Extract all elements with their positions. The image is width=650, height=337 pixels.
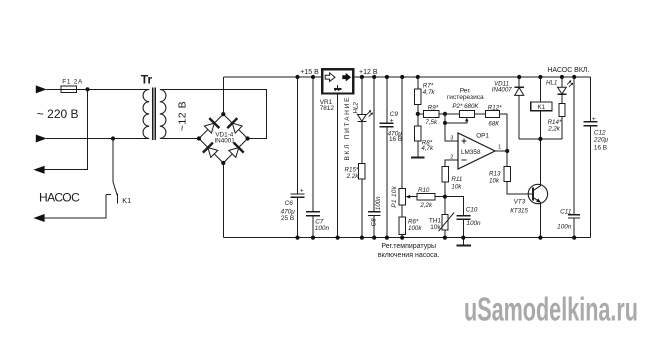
svg-text:НАСОС ВКЛ.: НАСОС ВКЛ. [547, 67, 589, 74]
wire R8 to ground [417, 141, 419, 157]
switch K1 lower terminal tick [106, 193, 111, 195]
wire TH1 bottom [444, 230, 446, 238]
resistor R15 [359, 163, 366, 178]
svg-text:100n: 100n [315, 225, 330, 232]
wire HL2 to R15 [361, 122, 363, 164]
wire R7 to divider node [417, 105, 419, 126]
wire R13 to base [507, 181, 533, 194]
capacitor C6 branch wire top [297, 77, 299, 194]
wire node to C10 [445, 197, 463, 216]
input terminal L (220V top) [36, 85, 47, 93]
node fused line junction [85, 87, 89, 91]
resistor R8 [415, 126, 422, 141]
svg-text:100n: 100n [557, 223, 572, 230]
VR1 ground mark [337, 85, 339, 89]
wire C9 bottom [386, 127, 388, 238]
wire bridge plus up [222, 77, 224, 114]
svg-text:~ 220 В: ~ 220 В [37, 107, 79, 121]
resistor R9 [423, 111, 439, 118]
wire bridge minus down [222, 163, 224, 238]
svg-text:КТ315: КТ315 [510, 207, 528, 214]
wire +12V rail [353, 76, 590, 78]
resistor R6 [399, 217, 405, 235]
node rail C6 [295, 236, 299, 240]
node divider left [416, 112, 420, 116]
node HL2 tap [360, 75, 364, 79]
wire C12 bottom [589, 126, 591, 238]
svg-text:OP1: OP1 [476, 133, 489, 140]
wire relay bottom bus [519, 138, 562, 140]
svg-text:K1: K1 [122, 196, 131, 205]
svg-text:гистерезиса: гистерезиса [447, 94, 484, 101]
svg-text:IN4001: IN4001 [214, 138, 235, 145]
wire output [495, 150, 507, 152]
wire output to R13 [506, 151, 508, 166]
regulator U VR1 7812 box [322, 69, 353, 93]
wire P2 to R12 [475, 113, 486, 115]
wire R12 to output [500, 114, 508, 151]
svg-text:F1 2A: F1 2A [62, 79, 83, 86]
node comparator input [443, 195, 447, 199]
wire C7 bottom [312, 216, 314, 238]
wire 220V top line [46, 88, 149, 90]
relay K1 coil box [531, 102, 552, 111]
node rail C7 [311, 236, 315, 240]
wire node to TH1 [444, 197, 446, 215]
svg-text:ВКЛ ПИТАНИЕ: ВКЛ ПИТАНИЕ [344, 97, 351, 161]
svg-text:C11: C11 [560, 208, 572, 215]
wire VR1 ground down [337, 94, 339, 238]
transformer Tr core [152, 87, 154, 140]
fuse F1 [61, 86, 77, 92]
node pin3 top [443, 112, 447, 116]
wire secondary top to bridge AC right [160, 90, 267, 139]
svg-text:7812: 7812 [320, 105, 335, 112]
capacitor C7 plates [306, 211, 320, 213]
ground below R8 [411, 156, 425, 158]
svg-text:C12: C12 [594, 130, 606, 137]
potentiometer P2 wiper [465, 118, 468, 122]
ground below C10 [462, 238, 464, 245]
svg-text:4,7k: 4,7k [423, 89, 436, 96]
diode VD11 cathode bar [514, 86, 524, 88]
LED HL1 triangle [558, 87, 567, 94]
node switch branch junction [111, 136, 115, 140]
node rail C10 [461, 236, 465, 240]
diode VD2 (upper-right) [232, 123, 242, 133]
VR1 output filled arrow [342, 73, 351, 82]
svg-text:Tr: Tr [141, 73, 153, 87]
svg-text:VT3: VT3 [514, 199, 526, 206]
LED HL2 light arrows [367, 111, 370, 114]
wire P1 to R6 [401, 205, 403, 217]
capacitor C11 plates [568, 214, 580, 216]
wire VD11 bottom [518, 95, 520, 138]
node C7 tap [311, 75, 315, 79]
node rail VR1 gnd [336, 236, 340, 240]
wire HL1 top [561, 77, 563, 87]
node bridge top [221, 112, 225, 116]
wire C11 bottom [573, 218, 575, 238]
wire pin3 vertical [445, 114, 458, 141]
output terminal pump side B [33, 214, 44, 222]
diode VD11 triangle [515, 88, 524, 96]
switch K1 contact [113, 182, 117, 195]
node VD11 tap [517, 75, 521, 79]
node C6 tap [295, 75, 299, 79]
bridge VD1-4 diamond [199, 114, 248, 163]
node C11 tap [572, 75, 576, 79]
svg-text:K1: K1 [538, 104, 546, 111]
svg-text:+12 В: +12 В [359, 69, 378, 76]
svg-text:НАСОС: НАСОС [39, 191, 80, 205]
wire switch feed down [112, 139, 114, 183]
resistor R7 [415, 89, 422, 105]
wire collector up [539, 139, 541, 186]
svg-text:LM358: LM358 [461, 149, 481, 156]
svg-text:+: + [300, 188, 304, 195]
wire pin3 node to P2 [445, 113, 460, 115]
wire C8 bottom [373, 216, 375, 238]
thermistor TH1 diagonal [439, 212, 455, 231]
wire P1 top [401, 77, 403, 189]
node bridge bottom [221, 161, 225, 165]
potentiometer P1 wiper arrow [409, 196, 417, 198]
node output [505, 149, 509, 153]
node C8 tap [372, 75, 376, 79]
svg-text:uSamodelkina.ru: uSamodelkina.ru [464, 291, 638, 328]
wire HL1 to R14 [561, 94, 563, 103]
wire divider to R9 [418, 113, 424, 115]
wire C10 bottom [462, 219, 464, 237]
svg-text:4,7k: 4,7k [421, 145, 434, 152]
svg-text:10k: 10k [430, 224, 441, 231]
capacitor C12 plates [583, 121, 597, 123]
output terminal pump side A [33, 166, 44, 174]
svg-text:2,2k: 2,2k [419, 202, 433, 209]
svg-text:68К: 68К [488, 120, 499, 127]
svg-text:R13: R13 [489, 170, 501, 177]
svg-text:C9: C9 [390, 111, 399, 118]
wire K1 top [539, 77, 541, 102]
resistor R14 [559, 103, 565, 116]
wire ground rail [223, 237, 590, 239]
svg-text:HL2: HL2 [352, 102, 359, 114]
svg-text:+: + [390, 117, 394, 124]
wire +15V rail [223, 76, 322, 78]
node P1 tap [400, 75, 404, 79]
VR1 input hollow arrow [325, 73, 335, 82]
wire switch to pump terminal [44, 194, 106, 218]
svg-text:+: + [592, 116, 596, 123]
wire emitter down [539, 202, 541, 237]
svg-text:IN4007: IN4007 [492, 86, 513, 93]
node bridge left [197, 136, 201, 140]
op-amp minus input mark [461, 159, 466, 161]
wire VD11 top [518, 77, 520, 87]
node rail VT3 emitter [538, 236, 542, 240]
wire HL2 anode [361, 77, 363, 115]
svg-text:2,2k: 2,2k [547, 125, 561, 132]
input terminal N (220V bottom) [36, 135, 47, 143]
node rail TH1 [443, 236, 447, 240]
node rail C8 [372, 236, 376, 240]
node rail R15 [360, 236, 364, 240]
svg-text:+15 В: +15 В [300, 69, 319, 76]
LED HL1 cathode bar [557, 93, 566, 95]
node C9 tap [385, 75, 389, 79]
diode VD3 (lower-left) [208, 148, 218, 158]
node rail C11 [572, 236, 576, 240]
wire R9 to pin3 node [439, 113, 445, 115]
svg-text:2.2k: 2.2k [346, 173, 360, 180]
wire R10 to node [435, 196, 445, 198]
capacitor C9 branch wire [386, 77, 388, 123]
switch K1 fixed contact bar [117, 194, 119, 204]
wire secondary bottom to bridge AC left [160, 137, 199, 139]
wire R11 to node [444, 182, 446, 197]
diode VD4 (lower-right) [229, 148, 239, 158]
op-amp OP1 triangle [458, 133, 495, 169]
svg-text:25 В: 25 В [281, 215, 294, 222]
svg-text:2: 2 [450, 155, 453, 161]
svg-text:R10: R10 [418, 187, 430, 194]
transformer Tr primary winding [143, 89, 149, 138]
node rail R6 [400, 236, 404, 240]
svg-text:1: 1 [498, 144, 501, 150]
transformer Tr secondary winding [160, 90, 166, 139]
svg-text:R12*: R12* [488, 104, 502, 111]
svg-text:7,5k: 7,5k [425, 119, 438, 126]
capacitor C8 plates [368, 211, 380, 213]
svg-text:100n: 100n [466, 220, 481, 227]
node rail C9 [385, 236, 389, 240]
capacitor C10 plates [456, 215, 470, 217]
wire R15 bottom [361, 179, 363, 238]
wire R6 bottom [401, 235, 403, 238]
node R7 tap [416, 75, 420, 79]
thermistor TH1 body [442, 215, 448, 231]
potentiometer P1 body [399, 189, 405, 205]
node wiper to pin3 line [443, 121, 447, 125]
wire R14 bottom [561, 116, 563, 139]
potentiometer P2 body [460, 111, 475, 118]
LED HL1 light arrows [567, 82, 570, 85]
LED HL2 triangle [358, 115, 367, 122]
node K1 tap [538, 75, 542, 79]
svg-text:HL1: HL1 [546, 80, 557, 87]
capacitor C6 plates [291, 193, 305, 195]
resistor R13 [504, 166, 511, 181]
wire fused branch down [44, 89, 87, 169]
node relay bottom [538, 137, 542, 141]
wire R7 top [417, 77, 419, 89]
svg-text:~12 В: ~12 В [177, 101, 189, 131]
op-amp plus input mark [461, 140, 466, 142]
svg-text:P1 10k: P1 10k [391, 185, 398, 207]
diode VD1 (upper-left) [204, 123, 214, 133]
capacitor C9 plates [379, 122, 393, 124]
svg-text:C8: C8 [371, 218, 378, 226]
transistor VT3 [528, 184, 547, 203]
svg-text:100k: 100k [408, 225, 422, 232]
svg-text:включения насоса.: включения насоса. [378, 252, 440, 259]
svg-text:10k: 10k [451, 183, 462, 190]
svg-text:10k: 10k [489, 178, 500, 185]
svg-text:C10: C10 [466, 206, 478, 213]
svg-text:16 В: 16 В [389, 136, 402, 143]
resistor R11 [442, 167, 449, 183]
svg-text:Рег.темпиратуры: Рег.темпиратуры [381, 243, 436, 250]
wire C6 bottom [297, 197, 299, 237]
svg-text:C6: C6 [285, 200, 294, 207]
svg-text:P2* 680K: P2* 680K [452, 103, 479, 110]
resistor R10 [417, 193, 435, 200]
capacitor C12 branch wire [589, 77, 591, 122]
resistor R12 [486, 111, 500, 118]
wire pin2 [445, 160, 458, 167]
svg-text:220μ: 220μ [593, 137, 609, 144]
capacitor C7 branch wire top [312, 77, 314, 212]
wire 220V bottom line [46, 138, 149, 140]
capacitor C8 branch wire [373, 77, 375, 212]
LED HL2 cathode bar [357, 121, 366, 123]
svg-text:3: 3 [450, 135, 453, 141]
svg-text:100n: 100n [375, 196, 382, 210]
node HL1 tap [560, 75, 564, 79]
capacitor C11 branch wire [573, 77, 575, 215]
svg-text:R11: R11 [451, 176, 462, 183]
wire K1 bottom [539, 111, 541, 139]
svg-text:16 В: 16 В [594, 144, 607, 151]
svg-text:R9*: R9* [428, 104, 439, 111]
node bridge right [246, 136, 250, 140]
